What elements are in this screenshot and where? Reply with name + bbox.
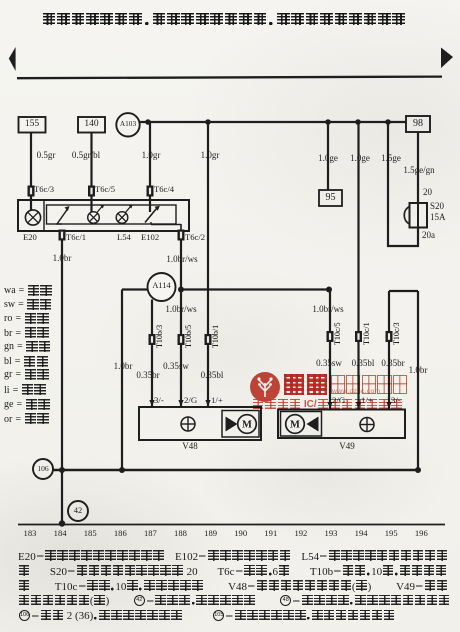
label A103 [120, 120, 136, 128]
pin T6c/2 [178, 230, 185, 241]
pin T10c/1 [355, 331, 362, 342]
wire 1.0ge from bus to box 95 [327, 122, 329, 190]
junction dots on bus [145, 119, 151, 125]
pin T6c/1 [59, 230, 66, 241]
label T10c/1 [363, 322, 371, 345]
junction dot A114 [178, 287, 184, 293]
watermark slogan [252, 399, 403, 410]
label 0.35br [381, 359, 404, 368]
label 1.0gr [142, 151, 161, 160]
label T10b/3 [156, 324, 164, 347]
V48 worm drive [226, 417, 238, 432]
wire 0.5gr from 155 to T6c/3 [30, 133, 32, 212]
ground point 42 [68, 501, 88, 521]
adjuster contact E102 [145, 209, 157, 223]
terminal ticks V48 [149, 400, 154, 407]
switch module box E20/E102 [18, 200, 189, 231]
ground connection 106 [33, 459, 53, 479]
label 196 [415, 529, 428, 538]
label 20a [422, 231, 435, 240]
wire 1.0gr from bus to T6c/4 [149, 122, 151, 212]
motor box V48 [139, 407, 261, 440]
label 98 [413, 119, 423, 130]
label 187 [144, 529, 157, 538]
terminal box 140 [78, 117, 105, 133]
wire A114 left branch [122, 288, 148, 290]
label 195 [385, 529, 398, 538]
ground bus wire [53, 469, 418, 471]
label 189 [204, 529, 217, 538]
label 15A [430, 213, 446, 222]
wire 1.0gr from bus to V48 pin 1 [207, 122, 209, 407]
V49 worm drive [307, 417, 319, 432]
label 95 [326, 193, 336, 204]
terminal box 95 [319, 190, 342, 206]
label 0.35bl [201, 371, 224, 380]
label 106 [37, 465, 48, 473]
motor box V49 [278, 410, 405, 439]
label 3/- [154, 396, 164, 405]
label 1.0br [114, 362, 133, 371]
title row [42, 13, 406, 25]
terminal box 98 [406, 116, 430, 132]
wire 1.5ge/gn from 98 to fuse S20 [417, 132, 419, 204]
watermark logo [249, 371, 281, 403]
label 1.0ge [350, 154, 370, 163]
V49 inner motor frame [281, 412, 322, 437]
terminal box 155 [19, 117, 46, 133]
left continuation arrow [9, 47, 16, 71]
V49 position sensor [360, 418, 374, 432]
inner frame [47, 205, 177, 224]
label T6c/1 [66, 233, 86, 242]
label 1/+ [361, 396, 373, 405]
label 2/G [332, 396, 345, 405]
V49 motor M [286, 415, 305, 434]
label 155 [25, 120, 39, 130]
pin T6c/5 [88, 186, 95, 197]
current track ruler [18, 524, 445, 526]
label 1.0br [409, 366, 428, 375]
label 0.5gr/bl [72, 151, 100, 160]
fuse S20 15A [410, 203, 428, 228]
wire 1.0ge from bus to V49 pin 1 [357, 122, 359, 409]
label T6c/4 [154, 185, 174, 194]
label 193 [325, 529, 338, 538]
svg-text:M: M [242, 420, 252, 431]
label 1.0ge [318, 154, 338, 163]
watermark brand text [283, 374, 328, 395]
label 190 [234, 529, 247, 538]
label 1/+ [211, 396, 223, 405]
wire 1.0br down to ground bus [121, 290, 123, 471]
caption block [18, 550, 448, 563]
label 186 [114, 529, 127, 538]
wire 0.35sw to V49 pin 2 [329, 290, 331, 411]
label 0.35bl [352, 359, 375, 368]
label 42 [74, 506, 83, 515]
label 0.35sw [163, 362, 189, 371]
wire 1.0br to ground bus right [417, 291, 419, 470]
label 194 [355, 529, 368, 538]
label T10c/5 [334, 322, 342, 345]
label 140 [84, 120, 98, 130]
label 0.35br [136, 371, 159, 380]
V48 motor M [238, 415, 257, 434]
pin T6c/4 [147, 186, 154, 197]
label 0.5gr [37, 151, 56, 160]
label 185 [84, 529, 97, 538]
label 192 [294, 529, 307, 538]
label E102 [141, 233, 159, 242]
label 1.0br [53, 254, 72, 263]
label 3/- [391, 396, 401, 405]
bus wire 30 [140, 121, 406, 123]
label E20 [23, 233, 37, 242]
watermark url [332, 388, 381, 395]
label T10b/1 [212, 324, 220, 347]
label A114 [152, 282, 170, 291]
label V48 [182, 442, 198, 451]
label 2/G [184, 396, 197, 405]
wire 0.5gr/bl from 140 to T6c/5 [90, 133, 92, 213]
label T10b/5 [185, 324, 193, 347]
internal link to T6c/2 [150, 222, 152, 225]
illumination lamp symbol 1 [88, 212, 100, 224]
wire 0.35br from A114 to V48 pin 3 [151, 300, 153, 408]
label 183 [24, 529, 37, 538]
pin T10b/1 [205, 334, 212, 345]
label T10c/3 [393, 322, 401, 345]
label 184 [54, 529, 67, 538]
pin T10b/3 [149, 334, 156, 345]
top rule [17, 77, 442, 79]
label 188 [174, 529, 187, 538]
label 0.35sw [316, 359, 342, 368]
V48 inner motor frame [222, 411, 259, 438]
bridge over V49 to ground wire [389, 290, 418, 292]
label L54 [117, 233, 131, 242]
divider [43, 200, 45, 231]
connector A103 [116, 113, 139, 136]
label T6c/2 [185, 233, 205, 242]
right continuation arrow [441, 48, 453, 69]
wire 0.35br to V49 pin 3 [388, 291, 390, 410]
terminal ticks V49 [327, 402, 332, 409]
wire 1.0br/ws from A114 to T10c/5 [181, 288, 330, 290]
label 191 [264, 529, 277, 538]
wire 1.0br/ws from T6c/2 to A114 [180, 240, 182, 407]
connector A114 [148, 273, 176, 301]
dimmer rheostat symbol [57, 209, 68, 224]
label S20 [430, 202, 444, 211]
label 1.0gr [201, 151, 220, 160]
label 1.5ge/gn [403, 166, 434, 175]
label 1.0br/ws [165, 305, 196, 314]
label 20 [423, 188, 432, 197]
illumination lamp symbol L54 [116, 212, 128, 224]
label 1.0br/ws [166, 255, 197, 264]
colour legend [4, 285, 52, 297]
label V49 [339, 442, 355, 451]
label T6c/5 [95, 185, 115, 194]
V48 position sensor [181, 417, 195, 431]
pin T6c/3 [28, 186, 35, 197]
label T6c/3 [34, 185, 54, 194]
label 1.0br/ws [312, 305, 343, 314]
label 1.5ge [381, 154, 401, 163]
pilot lamp E20 symbol [25, 210, 40, 225]
wire 1.5ge from bus to fuse loop [387, 122, 389, 247]
pin T10b/5 [178, 334, 185, 345]
pin T10c/5 [327, 331, 334, 342]
wire loop to fuse bottom [387, 245, 419, 247]
svg-text:M: M [290, 420, 300, 431]
wire 1.0br from T6c/1 to ground 42 [61, 240, 63, 524]
pin T10c/3 [386, 331, 393, 342]
